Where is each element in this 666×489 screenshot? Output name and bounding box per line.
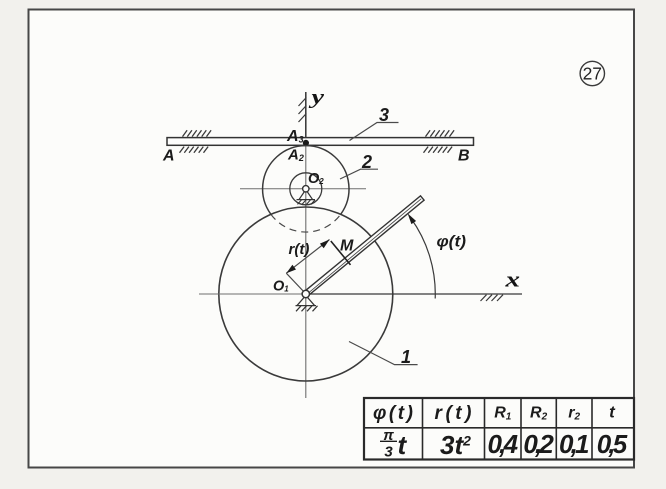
joint dot A3/A2 — [303, 140, 309, 146]
svg-text:A: A — [162, 148, 175, 165]
label 1 leader — [349, 342, 418, 365]
svg-text:0,4: 0,4 — [488, 429, 519, 459]
svg-text:3: 3 — [384, 444, 393, 461]
svg-text:1: 1 — [401, 347, 411, 367]
svg-text:t: t — [398, 430, 408, 460]
phi(t) angle arc — [411, 218, 436, 299]
x-axis centerline left part — [199, 293, 306, 295]
bar 3 (horizontal slider AB) — [167, 138, 474, 146]
r(t) dimension extension at O1 — [286, 273, 303, 291]
svg-text:B: B — [458, 148, 470, 165]
svg-text:27: 27 — [583, 64, 602, 84]
circled task number 27 — [580, 61, 604, 85]
table cell pi/3 t — [380, 427, 408, 461]
phi(t) arc arrowhead — [408, 213, 417, 224]
right guide hatching below bar — [424, 147, 453, 153]
rod O1M (slotted link) — [304, 196, 424, 296]
horizontal centerline through O2 — [240, 188, 366, 190]
left guide hatching below bar — [180, 147, 209, 153]
hatching on y-axis — [299, 98, 307, 123]
circle 2 outer rim hidden part (dashed) — [271, 214, 341, 232]
svg-text:M: M — [340, 238, 354, 255]
svg-text:0,1: 0,1 — [559, 429, 590, 459]
data table — [364, 398, 634, 460]
x-axis end hatching — [481, 295, 504, 301]
svg-text:φ(t): φ(t) — [373, 403, 413, 424]
pivot pin O2 — [297, 186, 316, 205]
circle 2 inner circle — [290, 173, 322, 205]
svg-text:0,2: 0,2 — [523, 429, 554, 459]
svg-text:0,5: 0,5 — [597, 429, 628, 459]
x-axis — [306, 293, 522, 295]
label 3 leader — [350, 123, 399, 141]
point M tick on rod — [331, 241, 351, 265]
circle 2 outer rim (solid part) — [263, 146, 349, 215]
svg-text:x: x — [504, 267, 520, 292]
pivot pin O1 — [296, 290, 318, 311]
vertical centerline through O2 and O1 — [305, 146, 307, 398]
svg-text:3: 3 — [379, 105, 389, 125]
r(t) dimension line — [286, 240, 329, 274]
circle 1 (large wheel) — [219, 207, 393, 381]
right guide hatching above bar — [426, 130, 455, 136]
svg-text:φ(t): φ(t) — [437, 234, 467, 251]
label 2 leader — [340, 169, 378, 179]
svg-text:y: y — [309, 87, 324, 109]
svg-text:2: 2 — [361, 152, 372, 172]
y-axis (vertical axis line) — [305, 92, 307, 146]
r(t) lower arrowhead — [286, 265, 296, 274]
r(t) upper arrowhead — [320, 240, 330, 249]
left guide hatching above bar — [183, 130, 212, 136]
svg-text:r(t): r(t) — [289, 241, 310, 258]
rod middle line — [308, 199, 421, 293]
